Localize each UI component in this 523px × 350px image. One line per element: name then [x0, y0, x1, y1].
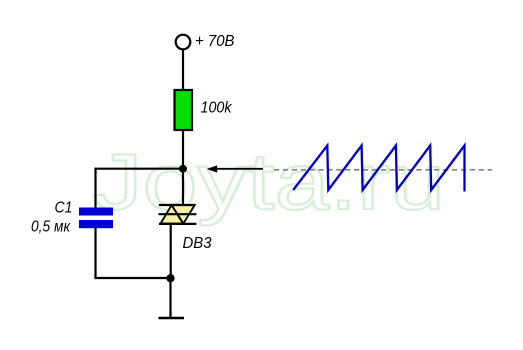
diac top bar — [159, 204, 195, 206]
capacitor C1 top plate — [79, 208, 113, 216]
wire capacitor branch vertical top — [94, 168, 96, 208]
node A junction dot — [179, 165, 187, 173]
arrow shaft — [210, 168, 263, 170]
wire node A to capacitor branch (horizontal) — [95, 168, 184, 170]
diac bottom bar — [159, 223, 197, 225]
svg-text:+ 70В: + 70В — [195, 33, 235, 50]
wire node A to diac top — [182, 169, 184, 206]
ground — [159, 317, 185, 320]
terminal +70V — [176, 35, 191, 50]
wire terminal to resistor — [182, 49, 184, 91]
wire node B to ground — [169, 278, 171, 318]
diac up triangle — [161, 205, 183, 224]
arrow head — [207, 165, 218, 172]
diac down triangle — [172, 205, 195, 224]
wire capacitor bottom to bottom rail — [94, 228, 96, 279]
svg-text:C1: C1 — [55, 199, 73, 216]
svg-text:0,5 мк: 0,5 мк — [31, 218, 71, 235]
diac middle bar — [159, 213, 197, 215]
node B junction dot — [166, 274, 174, 282]
diac U1 DB3 — [159, 205, 197, 224]
dashed reference line — [274, 169, 492, 171]
wire diac bottom to node B — [170, 224, 172, 278]
svg-text:100k: 100k — [201, 100, 233, 117]
sawtooth waveform — [293, 146, 464, 192]
wire resistor to node A — [182, 130, 184, 170]
svg-text:DB3: DB3 — [183, 235, 212, 252]
arrow pointing to node A — [207, 165, 263, 172]
resistor R 100k — [175, 90, 193, 130]
capacitor C1 bottom plate — [79, 220, 113, 228]
wire bottom rail horizontal — [95, 277, 171, 279]
